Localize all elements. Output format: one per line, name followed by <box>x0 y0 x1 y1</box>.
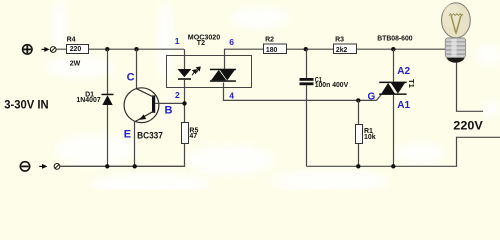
wire D1 vertical <box>107 49 109 166</box>
phototriac inside MOC3020 <box>210 69 236 82</box>
svg-text:BC337: BC337 <box>137 130 163 140</box>
junction top collector <box>134 47 138 51</box>
svg-text:B: B <box>165 104 173 116</box>
svg-text:2k2: 2k2 <box>336 47 347 54</box>
junction bottom emitter <box>133 164 137 168</box>
terminal plus <box>23 45 32 54</box>
connector input plus <box>42 47 57 53</box>
svg-text:2W: 2W <box>70 60 81 67</box>
svg-text:47: 47 <box>189 133 197 140</box>
junction top D1 <box>105 47 109 51</box>
svg-text:220V: 220V <box>453 119 483 133</box>
wire bottom rail left <box>60 165 185 167</box>
svg-text:1: 1 <box>175 36 180 46</box>
optocoupler U1 MOC3020 box <box>167 56 252 88</box>
svg-text:R2: R2 <box>265 37 274 44</box>
wire pin1 <box>184 49 186 69</box>
svg-text:C: C <box>127 72 135 84</box>
wire emitter vertical <box>134 122 136 167</box>
wire triac A1 vertical <box>393 95 395 167</box>
wire pin2 <box>184 80 186 122</box>
svg-text:3-30V IN: 3-30V IN <box>4 97 48 111</box>
svg-text:G: G <box>368 92 376 103</box>
svg-text:10k: 10k <box>364 134 376 141</box>
LED inside MOC3020 <box>178 69 192 80</box>
junction gate R1 <box>356 98 360 102</box>
svg-text:E: E <box>124 128 131 140</box>
resistor R5 <box>182 123 189 144</box>
LED light arrows <box>192 67 200 75</box>
svg-text:A1: A1 <box>397 100 410 111</box>
wire lamp bottom <box>457 63 484 112</box>
resistor R1 <box>356 125 363 144</box>
junction pin2 base <box>182 101 186 105</box>
svg-text:T1: T1 <box>407 79 416 88</box>
wire triac A2 vertical <box>393 49 395 82</box>
svg-text:R4: R4 <box>67 37 76 44</box>
resistor R4 <box>67 45 89 54</box>
junction top C1 <box>304 47 308 51</box>
connector input minus <box>39 164 60 170</box>
wire top rail left <box>56 48 184 50</box>
wire bottom rail right <box>307 137 500 166</box>
wire collector vertical <box>136 49 138 89</box>
junction bottom triac <box>391 164 395 168</box>
wire top rail right <box>264 48 446 50</box>
triac T1 <box>379 82 406 95</box>
resistor R2 <box>264 44 287 54</box>
lamp LA1 <box>442 3 471 63</box>
resistor R3 <box>334 44 357 54</box>
wire pin4 gate line <box>224 83 382 101</box>
wire C1 vertical <box>306 49 308 166</box>
junction bottom D1 <box>105 164 109 168</box>
terminal minus <box>20 162 29 171</box>
junction bottom R1 <box>356 164 360 168</box>
svg-text:4: 4 <box>229 91 234 101</box>
wire R5 to bottom rail <box>60 144 185 167</box>
junction top triac <box>391 47 395 51</box>
svg-text:100n 400V: 100n 400V <box>315 82 349 89</box>
svg-text:1N4007: 1N4007 <box>76 97 100 104</box>
transistor Q1 BC337 <box>124 88 159 123</box>
wire base to pin2 <box>155 102 184 104</box>
svg-text:BTB08-600: BTB08-600 <box>377 34 412 43</box>
svg-text:6: 6 <box>229 37 234 47</box>
wire R1 vertical <box>358 100 360 166</box>
svg-text:2: 2 <box>175 90 180 100</box>
capacitor C1 <box>300 78 314 85</box>
svg-text:A2: A2 <box>397 66 410 77</box>
svg-text:220: 220 <box>70 46 82 53</box>
diode D1 <box>102 94 114 105</box>
svg-text:T2: T2 <box>197 40 205 47</box>
svg-text:180: 180 <box>266 47 277 54</box>
wire pin6 <box>225 49 265 69</box>
svg-text:R3: R3 <box>335 37 344 44</box>
